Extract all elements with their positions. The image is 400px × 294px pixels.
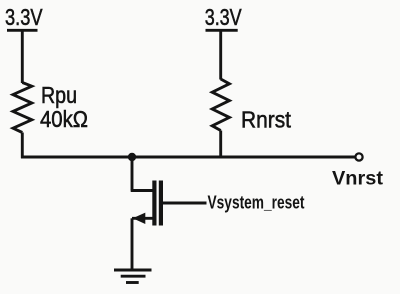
transistor Q1 gate bar [159,181,163,226]
wire: source to ground [131,218,134,270]
power rail 3.3V left [7,29,38,32]
wire: Rpu to node [21,133,24,159]
transistor Q1 source arrow [133,213,146,224]
power rail 3.3V right [206,29,238,32]
ground bar 2 [121,275,146,278]
resistor Rpu [13,83,32,133]
svg-text:40kΩ: 40kΩ [40,106,88,132]
ground bar 3 [126,281,139,284]
svg-text:Rnrst: Rnrst [241,107,292,133]
transistor Q1 source lead [132,217,153,220]
svg-text:Vsystem_reset: Vsystem_reset [208,192,305,212]
transistor Q1 gate lead [163,202,207,205]
svg-text:3.3V: 3.3V [205,4,243,30]
svg-text:Rpu: Rpu [41,82,77,108]
wire: main horizontal net [21,156,356,159]
transistor Q1 drain lead [131,189,153,192]
wire: right rail to Rnrst [219,30,222,79]
svg-text:Vnrst: Vnrst [332,168,384,190]
transistor Q1 channel bar [152,181,156,226]
ground bar 1 [114,269,152,272]
resistor Rnrst [212,79,229,131]
wire: left rail to Rpu [21,30,24,83]
wire: node down to transistor drain [131,157,134,191]
wire: Rnrst to node [219,131,222,159]
svg-text:3.3V: 3.3V [5,4,43,30]
terminal Vnrst (open circle) [355,153,362,160]
junction dot [128,153,136,161]
